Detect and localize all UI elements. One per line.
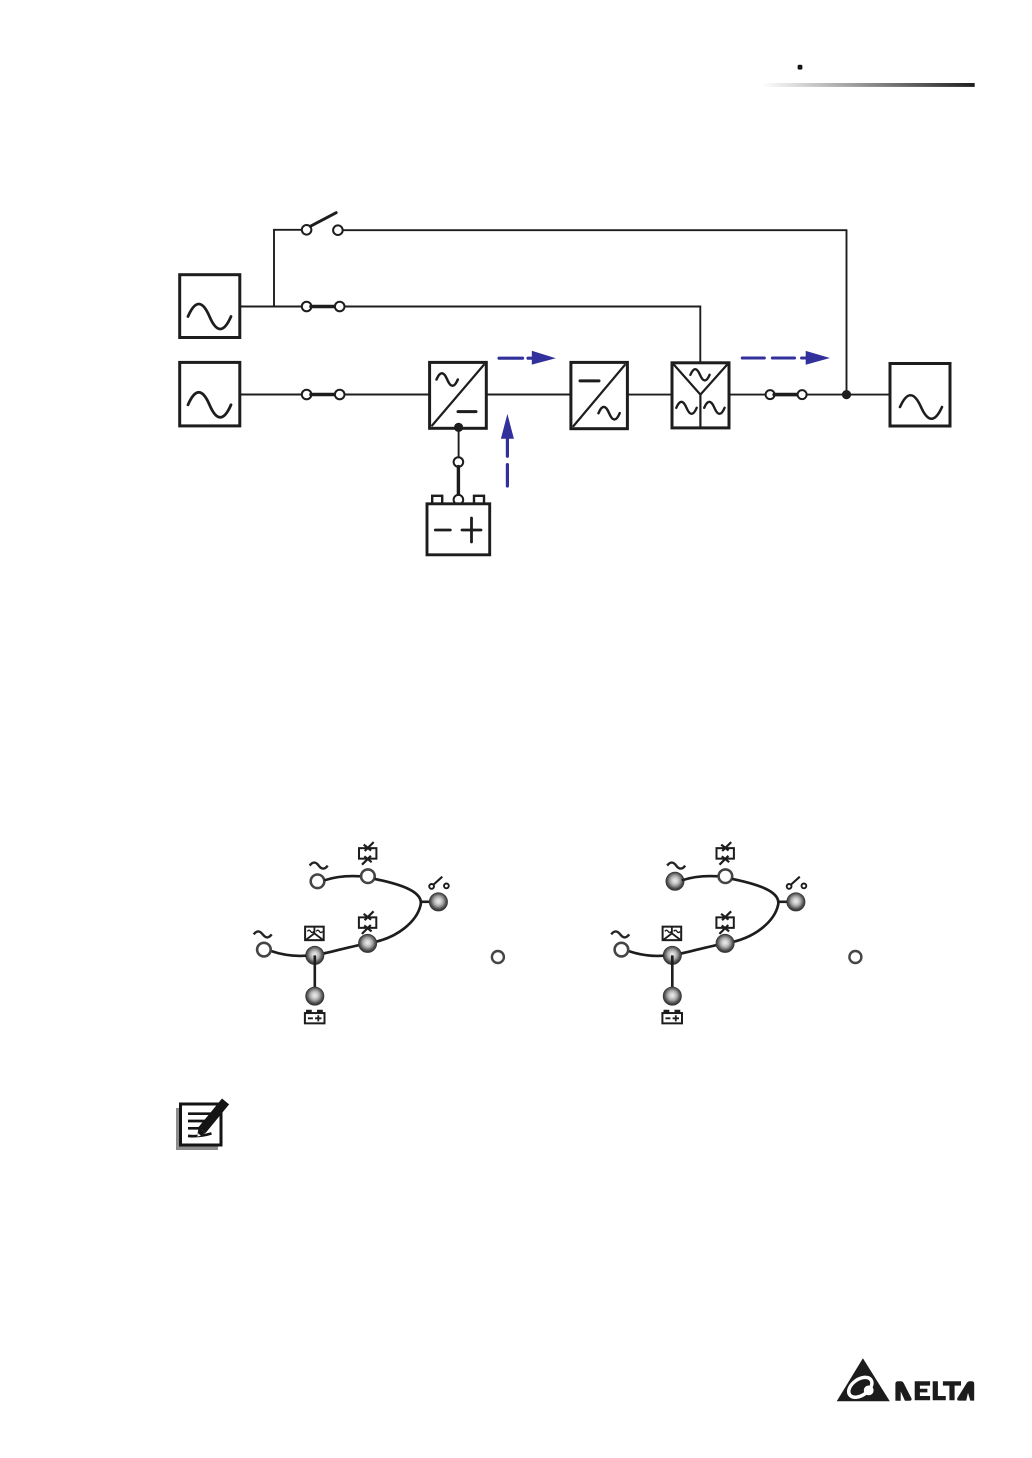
- note icon pencil tip: [197, 1127, 205, 1137]
- fuse icon above bypass fuse LED: [717, 842, 734, 865]
- open switch Q3 (top bypass branch): left contact: [302, 225, 312, 235]
- fuse icon above bypass fuse LED: [359, 842, 376, 865]
- NOTE ICON: [176, 1099, 229, 1151]
- sine in source box 1: [188, 304, 231, 329]
- wire AC input to center LED: [271, 951, 306, 956]
- logo swirl ring: [845, 1373, 875, 1401]
- note icon pencil tip highlight: [197, 1133, 201, 1136]
- wire: inverter to static switch: [627, 394, 672, 396]
- closed switch Q1 (input): left contact: [302, 390, 312, 400]
- wire: input switch to rectifier: [345, 394, 430, 396]
- rectifier AC sine symbol: [437, 373, 458, 386]
- closed switch Q4: bar: [774, 393, 798, 397]
- tilde above bypass input LED: [667, 863, 685, 869]
- MIMIC PANEL DIAGRAM RIGHT: [611, 842, 861, 1023]
- battery switch: bar: [457, 467, 460, 496]
- inverter DC minus symbol: [580, 379, 599, 382]
- inverter fuse LED (on, sphere): [359, 934, 377, 952]
- bypass input LED (on, sphere): [666, 872, 684, 890]
- wire center LED down to battery LED: [671, 955, 674, 996]
- sine in source box 2: [188, 392, 231, 417]
- center LED (on, sphere): [663, 946, 681, 964]
- fuse icon above inverter fuse LED: [716, 911, 733, 934]
- bypass input LED (off, ring): [311, 875, 325, 889]
- AC input LED (off, ring): [257, 943, 271, 957]
- logo letter D: [895, 1381, 911, 1401]
- wire: source2 to input switch: [240, 394, 302, 396]
- battery icon below battery LED: [305, 1011, 325, 1024]
- logo letter L: [933, 1381, 946, 1400]
- blue flow arrow 3 (battery up to rectifier, vertical): [501, 414, 514, 486]
- battery switch: top contact: [454, 457, 464, 467]
- logo letter T: [943, 1381, 961, 1400]
- load AC box (output): [890, 364, 950, 427]
- open switch Q3: blade: [310, 213, 336, 227]
- DELTA LOGO: [837, 1358, 975, 1401]
- closed switch Q2 (static bypass feed): left contact: [302, 302, 312, 312]
- wire center LED down to battery LED: [313, 955, 316, 996]
- note icon text line 1: [188, 1112, 216, 1115]
- AC source box 2 (main input): [180, 362, 240, 426]
- output LED (on, sphere): [429, 893, 447, 911]
- wire: rectifier node down to battery switch: [458, 429, 460, 457]
- note icon text line 2: [188, 1120, 211, 1123]
- closed switch Q1: bar: [311, 393, 335, 397]
- static transfer switch block: [672, 363, 729, 428]
- inverter fuse LED (on, sphere): [716, 934, 734, 952]
- standalone alarm LED (off, ring): [492, 951, 504, 963]
- wire: right riser down to output node: [846, 230, 848, 394]
- main arc wire (bypass path curve): [673, 879, 779, 955]
- static switch lower-right sine: [704, 402, 724, 414]
- battery icon below battery LED: [662, 1011, 682, 1024]
- wire: bypass branch top horizontal: [343, 229, 847, 231]
- connector wire to output LED: [778, 900, 787, 903]
- tilde above AC input LED: [611, 931, 629, 937]
- note icon pencil body: [199, 1099, 230, 1134]
- battery terminal bump left: [432, 496, 442, 504]
- static switch top sine: [690, 369, 709, 380]
- blue flow arrow 1 (rectifier to inverter): [499, 351, 556, 365]
- standalone alarm LED (off, ring): [849, 951, 861, 963]
- main arc wire (bypass path curve): [315, 879, 421, 955]
- breaker icon above output LED: [429, 877, 449, 889]
- inverter AC sine symbol: [599, 407, 620, 420]
- wire bypass input to bypass fuse LED: [682, 876, 719, 880]
- blue flow arrow 2 (static switch to output): [742, 351, 830, 365]
- wire: output switch to load box: [807, 394, 891, 396]
- note icon text line 3: [188, 1127, 205, 1130]
- logo triangle: [837, 1358, 890, 1401]
- bypass fuse LED (off, ring): [361, 869, 375, 883]
- rectifier diagonal: [432, 365, 484, 426]
- rectifier DC minus symbol: [458, 410, 476, 413]
- junction dot under rectifier: [454, 423, 463, 432]
- note icon text line 4: [188, 1133, 212, 1136]
- AC input LED (off, ring): [615, 943, 629, 957]
- closed switch Q2: right contact: [335, 302, 345, 312]
- logo swirl blob: [864, 1386, 874, 1396]
- open switch Q3: right contact: [333, 225, 343, 235]
- sine in load box: [900, 395, 942, 419]
- battery body: [427, 504, 490, 555]
- battery switch: bottom contact: [454, 495, 464, 505]
- fuse icon above inverter fuse LED: [359, 911, 376, 934]
- inverter diagonal: [574, 365, 625, 426]
- inverter DC/AC block: [571, 362, 628, 428]
- closed switch Q4: right contact: [798, 390, 807, 399]
- header bullet dot: [798, 65, 803, 70]
- wire AC input to center LED: [628, 951, 663, 956]
- connector wire to output LED: [421, 900, 430, 903]
- inverter icon left of center LED: [663, 927, 682, 941]
- battery minus sign: [435, 529, 450, 532]
- output LED (on, sphere): [787, 893, 805, 911]
- wire: rectifier to inverter: [486, 394, 571, 396]
- wire: left riser up to bypass branch: [274, 230, 302, 307]
- static switch lower-left sine: [676, 402, 696, 414]
- center LED (on, sphere): [306, 946, 324, 964]
- closed switch Q4 (output): left contact: [766, 390, 775, 399]
- wire bypass input to bypass fuse LED: [324, 876, 361, 880]
- note icon paper: [181, 1104, 222, 1145]
- inverter icon left of center LED: [305, 927, 324, 941]
- wire: static switch to output switch: [729, 394, 765, 396]
- closed switch Q2: bar: [311, 305, 335, 309]
- logo letter A: [957, 1381, 974, 1400]
- battery LED (on, sphere): [306, 987, 324, 1005]
- AC source box 1 (utility input): [180, 275, 240, 338]
- tilde above bypass input LED: [310, 863, 328, 869]
- bypass fuse LED (off, ring): [719, 869, 733, 883]
- output node junction dot: [842, 390, 851, 399]
- closed switch Q1: right contact: [335, 390, 345, 400]
- battery terminal bump right: [474, 496, 484, 504]
- logo letter E: [915, 1381, 930, 1400]
- MIMIC PANEL DIAGRAM LEFT: [254, 842, 504, 1023]
- static switch V lines: [674, 365, 727, 427]
- note icon shadow square: [176, 1108, 218, 1150]
- rectifier AC/DC block: [430, 362, 487, 428]
- battery LED (on, sphere): [663, 987, 681, 1005]
- breaker icon above output LED: [787, 877, 807, 889]
- wire: bypass feed to static switch top: [345, 307, 701, 363]
- tilde above AC input LED: [254, 931, 272, 937]
- header gradient rule: [762, 83, 975, 87]
- wire: source1 to middle switch: [240, 306, 302, 308]
- MAIN BLOCK DIAGRAM: [180, 213, 950, 555]
- battery plus sign: [462, 518, 481, 542]
